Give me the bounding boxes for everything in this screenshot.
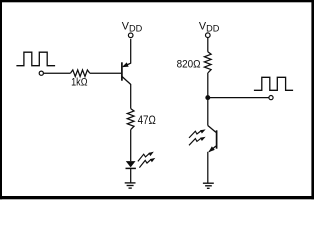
resistor R1 1kohm: [70, 70, 89, 77]
frame bottom: [0, 196, 314, 199]
frame left: [0, 0, 2, 199]
input pulse waveform: [16, 52, 55, 65]
wire LED to ground: [130, 168, 132, 182]
frame right: [311, 0, 314, 199]
wire collector to R2: [130, 84, 132, 109]
svg-text:VDD: VDD: [122, 21, 143, 34]
wire R1 to base: [90, 72, 121, 74]
VDD terminal right: [206, 33, 211, 38]
output pulse waveform: [254, 77, 293, 90]
resistor R2 47ohm: [127, 109, 134, 130]
svg-text:820Ω: 820Ω: [177, 58, 201, 70]
svg-text:1kΩ: 1kΩ: [71, 77, 87, 89]
wire VDD to R3: [207, 38, 209, 52]
LED light emission arrow 1: [138, 150, 155, 161]
VDD terminal left: [128, 33, 133, 38]
light ray arrow into Q2 upper: [189, 127, 207, 140]
ground left: [125, 183, 136, 188]
wire input to R1: [44, 72, 71, 74]
wire emitter to VDD terminal: [130, 39, 132, 64]
light ray arrow into Q2 lower: [189, 134, 207, 147]
output terminal: [269, 96, 273, 100]
wire node to output terminal: [208, 97, 269, 99]
resistor R3 820ohm: [204, 52, 211, 73]
frame top: [0, 0, 314, 2]
wire R3 to node: [207, 73, 209, 98]
wire R2 to LED: [130, 130, 132, 162]
transistor Q1 (PNP): [121, 62, 131, 84]
svg-text:47Ω: 47Ω: [138, 113, 156, 127]
input terminal: [39, 71, 43, 75]
ground right: [203, 183, 214, 188]
wire emitter to ground: [207, 152, 209, 183]
node junction dot: [205, 95, 210, 100]
LED light emission arrow 2: [139, 156, 156, 167]
wire node to phototransistor collector: [207, 98, 209, 126]
phototransistor Q2: [207, 126, 217, 154]
LED D1: [126, 161, 136, 168]
svg-text:VDD: VDD: [199, 20, 220, 33]
